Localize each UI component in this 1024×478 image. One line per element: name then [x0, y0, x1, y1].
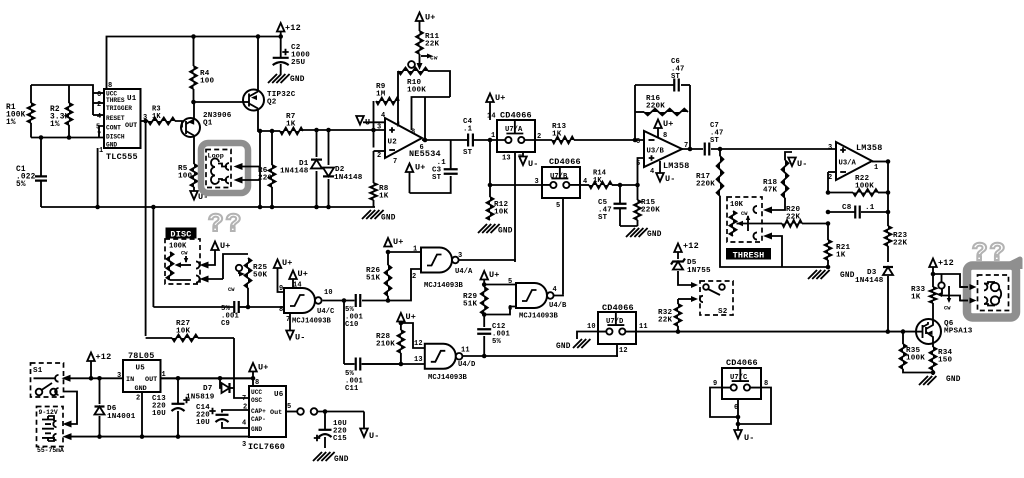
svg-text:ST: ST [671, 73, 681, 81]
power +12 arrow top [280, 28, 282, 57]
svg-text:U+: U+ [663, 119, 674, 129]
wire Q2 emitter [257, 37, 259, 92]
resistor R9 [376, 98, 399, 105]
resistor R32 [677, 299, 679, 304]
svg-text:GND: GND [251, 426, 262, 433]
wire output feedback vertical [887, 162, 889, 227]
switch S2 dashed box [700, 281, 733, 315]
wire V+ top rail [107, 37, 281, 90]
wire U3B feedback right [689, 85, 691, 149]
potentiometer DISC 100K dashed box [165, 239, 200, 284]
svg-text:1K: 1K [836, 252, 846, 260]
svg-text:CD4066: CD4066 [726, 358, 758, 368]
svg-text:3: 3 [117, 372, 121, 380]
svg-text:MCJ14093B: MCJ14093B [292, 318, 332, 326]
svg-text:S2: S2 [718, 308, 728, 316]
resistor R18 [782, 160, 789, 198]
svg-text:9: 9 [279, 285, 283, 293]
wire U7A pin13 control [514, 152, 516, 260]
svg-text:4: 4 [553, 286, 557, 294]
svg-text:22K: 22K [893, 240, 908, 248]
capacitor C12 [483, 315, 485, 357]
svg-text:3: 3 [458, 252, 462, 260]
wire U4A out to U7A pin13 [458, 260, 515, 262]
svg-text:U7/C: U7/C [730, 374, 748, 382]
power U+ at U4A pin1 [384, 238, 392, 247]
svg-text:D3: D3 [867, 269, 877, 277]
svg-text:LM358: LM358 [663, 161, 690, 171]
svg-text:100K: 100K [855, 183, 874, 191]
svg-text:13: 13 [502, 155, 511, 163]
diode D6 1N4001 [99, 378, 101, 404]
power U+ at U7A pin14 [486, 94, 494, 103]
svg-text:100: 100 [200, 78, 215, 86]
node C5 junction [618, 183, 623, 188]
svg-text:U5: U5 [136, 365, 146, 373]
ground below R15 [626, 228, 648, 237]
svg-text:C8: C8 [842, 204, 852, 212]
annotation gray speaker box [967, 266, 1016, 318]
svg-text:U1: U1 [127, 95, 137, 103]
svg-text:13: 13 [414, 356, 423, 364]
svg-text:8: 8 [279, 306, 283, 314]
wire U3B feedback left [634, 85, 636, 140]
svg-text:CW: CW [181, 251, 188, 257]
capacitor C9 [234, 301, 239, 313]
svg-text:50K: 50K [253, 272, 268, 280]
svg-text:22K: 22K [786, 214, 801, 222]
svg-text:GND: GND [334, 456, 349, 464]
wire R27 to U6 osc [234, 338, 249, 398]
wire +12 rail to S1 [68, 377, 253, 379]
svg-text:1N4148: 1N4148 [280, 168, 309, 176]
svg-text:55-75mA: 55-75mA [37, 447, 64, 454]
svg-text:U-: U- [797, 159, 808, 169]
svg-text:LM358: LM358 [856, 143, 883, 153]
wire U7C tie-off loops [710, 388, 738, 418]
op-amp U3/B LM358 [644, 131, 682, 167]
svg-text:1K: 1K [911, 294, 921, 302]
resistor R14 [612, 184, 620, 186]
wire C4 to U7A [473, 139, 497, 141]
potentiometer R33 1K [930, 287, 937, 303]
svg-text:10K: 10K [176, 328, 191, 336]
label DISC [166, 228, 197, 239]
diode D2 1N4148 [328, 130, 330, 165]
wire base row to Q2 [194, 101, 244, 103]
svg-text:Q1: Q1 [203, 120, 213, 128]
speaker connector symbol [984, 284, 987, 291]
svg-text:210K: 210K [376, 341, 395, 349]
resistor R26 [387, 252, 389, 265]
svg-text:22K: 22K [658, 317, 673, 325]
svg-text:1N4148: 1N4148 [855, 277, 884, 285]
wire to U7B [490, 184, 542, 186]
wire U4D pin13 row [362, 363, 425, 365]
svg-text:U4/D: U4/D [458, 361, 476, 369]
wire R10 right leg [428, 71, 450, 97]
potentiometer R10 100K [398, 68, 428, 75]
wire Q2 collector to R7 row [258, 109, 280, 132]
switch S1 dashed box [31, 363, 64, 397]
capacitor C4 [468, 134, 473, 147]
op-amp U3/A LM358 [836, 142, 872, 180]
svg-text:3: 3 [377, 124, 381, 132]
annotation gray loop box [201, 143, 248, 193]
wire R32 to S2 [678, 298, 691, 300]
node Q2 emitter junction [256, 34, 261, 39]
svg-text:U+: U+ [495, 93, 506, 103]
resistor R21 [827, 224, 829, 241]
svg-text:14: 14 [487, 113, 496, 121]
wire C10-C11 branch [343, 301, 345, 365]
resistor R6 [271, 131, 273, 165]
power U+ at R28 [397, 313, 405, 322]
transistor Q6 MPSA13 [916, 319, 941, 344]
ground below C2 [268, 74, 290, 83]
ground below R12 [478, 224, 500, 233]
svg-text:U7/D: U7/D [606, 318, 624, 326]
label THRESH [726, 248, 771, 260]
svg-text:TRIGGER: TRIGGER [106, 105, 132, 112]
svg-text:OUT: OUT [145, 376, 157, 384]
svg-text:??: ?? [972, 238, 1007, 268]
svg-text:U+: U+ [406, 312, 417, 322]
resistor R13 [552, 137, 574, 144]
resistor R16 [644, 109, 688, 116]
svg-text:1%: 1% [6, 119, 16, 127]
svg-text:12: 12 [414, 340, 423, 348]
wire battery minus rail [70, 436, 249, 438]
svg-text:2: 2 [377, 152, 381, 160]
svg-text:1M: 1M [376, 91, 386, 99]
svg-text:100K: 100K [169, 243, 187, 251]
svg-text:7: 7 [393, 158, 397, 166]
wire S1 to battery [64, 392, 77, 425]
wire input branch down [489, 140, 491, 185]
svg-text:U2: U2 [388, 139, 398, 147]
svg-text:U4/C: U4/C [317, 308, 335, 316]
svg-text:10U: 10U [152, 410, 166, 418]
svg-text:5%: 5% [492, 338, 502, 346]
power U+ above R11 [419, 21, 421, 31]
resistor R4 [193, 37, 195, 67]
wire U7D pin11 rail [636, 331, 916, 333]
svg-text:11: 11 [639, 323, 648, 331]
svg-text:10: 10 [324, 289, 333, 297]
resistor R27 [146, 337, 172, 339]
svg-text:2: 2 [412, 273, 416, 281]
svg-text:U+: U+ [282, 258, 293, 268]
svg-text:5: 5 [287, 403, 291, 411]
svg-text:CW: CW [944, 306, 951, 312]
wire U1 out node [141, 120, 149, 122]
svg-text:GND: GND [556, 343, 571, 351]
svg-text:5: 5 [556, 202, 560, 210]
wire R35 to gnd node [903, 369, 933, 373]
nand gate U4/B MCJ14093B [516, 283, 547, 308]
wire 555 out to timing [145, 121, 147, 336]
svg-text:2: 2 [136, 395, 140, 403]
power U+ at U4C pin9 [274, 260, 282, 269]
wire U4C output [323, 300, 355, 302]
disc pot element [167, 252, 174, 280]
svg-text:220K: 220K [641, 207, 660, 215]
resistor R29 [481, 287, 488, 315]
svg-text:NE5534: NE5534 [409, 149, 441, 159]
wire R17 down to thresh pot [720, 196, 782, 267]
svg-text:CAP-: CAP- [251, 416, 266, 423]
power +12 above D5 [674, 244, 682, 253]
loop coil symbol [211, 158, 219, 183]
capacitor C11 [344, 363, 355, 365]
resistor R20 [802, 223, 828, 225]
resistor R1 [30, 85, 32, 103]
svg-text:4: 4 [381, 112, 385, 120]
svg-text:150: 150 [938, 357, 953, 365]
svg-text:220K: 220K [696, 181, 715, 189]
svg-text:ST: ST [463, 149, 473, 157]
svg-text:ST: ST [432, 174, 442, 182]
svg-text:IN: IN [126, 376, 134, 384]
resistor R23 [885, 226, 892, 246]
svg-text:U-: U- [528, 159, 539, 169]
svg-text:100: 100 [178, 173, 193, 181]
wire U4A pin2 riser [388, 269, 421, 301]
svg-text:ST: ST [598, 214, 608, 222]
wire U4B out to U7B pin5 [554, 294, 563, 297]
svg-text:1: 1 [874, 164, 878, 172]
svg-text:D7: D7 [203, 385, 213, 393]
svg-text:cw: cw [430, 55, 438, 62]
svg-text:1K: 1K [152, 113, 161, 121]
svg-text:Out: Out [270, 409, 282, 417]
svg-text:22K: 22K [425, 41, 440, 49]
svg-text:5%: 5% [16, 181, 26, 189]
svg-text:3: 3 [828, 144, 832, 152]
power +12 arrow at supply [90, 361, 92, 378]
capacitor C15 [324, 412, 326, 430]
wire R25 to disc bottom [205, 278, 223, 280]
resistor R5 [191, 164, 198, 187]
svg-text:1K: 1K [593, 177, 602, 185]
svg-text:??: ?? [208, 209, 243, 239]
wire U5 out rail [161, 377, 254, 379]
wire Q6 collector [932, 303, 934, 320]
ground below R8 [362, 210, 384, 219]
svg-text:10K: 10K [730, 201, 744, 209]
wire U5 pin2 to rail [141, 392, 143, 437]
svg-text:CAP+: CAP+ [251, 408, 266, 415]
wire U2 output [422, 139, 467, 141]
wire R25 bottom [247, 288, 249, 307]
wire R7 to U2 [303, 129, 385, 131]
svg-text:MCJ14093B: MCJ14093B [428, 374, 468, 382]
capacitor C10 [356, 294, 361, 307]
svg-text:CW: CW [228, 287, 235, 293]
svg-text:GND: GND [106, 142, 117, 149]
power U- at C15 [363, 412, 365, 429]
transistor Q1 collector wire [193, 136, 195, 165]
svg-text:U+: U+ [258, 363, 269, 373]
svg-text:U+: U+ [298, 269, 309, 279]
svg-text:6: 6 [420, 144, 424, 152]
svg-text:51K: 51K [463, 301, 478, 309]
wire U4A pin1 row [388, 251, 421, 253]
wire pot wiper to R20 [743, 223, 782, 225]
capacitor C5 [619, 185, 621, 203]
svg-text:+12: +12 [683, 241, 699, 251]
svg-text:11: 11 [461, 347, 470, 355]
wire U4D output row [462, 355, 618, 357]
power U- at U2 pin4 [356, 116, 364, 125]
wire R9 left vertical [373, 101, 375, 148]
svg-text:THRES: THRES [106, 97, 125, 104]
svg-text:GND: GND [647, 231, 662, 239]
power U- at U3B pin4 [659, 161, 661, 173]
power U- below R5 [193, 187, 195, 192]
op-amp U2 NE5534 [385, 118, 422, 158]
svg-text:U+: U+ [489, 270, 500, 280]
svg-text:220K: 220K [646, 103, 665, 111]
svg-text:10: 10 [587, 323, 596, 331]
svg-text:47K: 47K [763, 187, 778, 195]
capacitor C6 [674, 79, 679, 92]
svg-text:1N4148: 1N4148 [334, 174, 363, 182]
svg-text:8: 8 [663, 132, 667, 140]
svg-text:U-: U- [295, 333, 306, 343]
nand gate U4/A MCJ14093B [421, 248, 452, 273]
wire U7B pin5 control [562, 198, 564, 295]
wire U3B output [682, 148, 703, 150]
svg-text:GND: GND [381, 215, 396, 223]
wire discharge row [31, 137, 104, 139]
svg-text:THRESH: THRESH [733, 251, 765, 261]
svg-text:12: 12 [619, 347, 628, 355]
svg-text:C15: C15 [333, 435, 347, 443]
capacitor C14 [222, 410, 249, 413]
svg-text:GND: GND [946, 376, 961, 384]
svg-text:10U: 10U [196, 419, 210, 427]
svg-text:1K: 1K [552, 131, 562, 139]
wire U7D pin12 [617, 344, 618, 356]
svg-text:51K: 51K [366, 275, 381, 283]
svg-text:TLC555: TLC555 [106, 152, 138, 162]
svg-text:100K: 100K [407, 87, 426, 95]
svg-text:1: 1 [491, 132, 495, 140]
svg-text:U+: U+ [220, 241, 231, 251]
diode D7 1N5819 [220, 378, 221, 388]
wire R10 left leg [397, 71, 399, 125]
wire U3A output [872, 161, 888, 163]
battery dashed box [37, 407, 64, 447]
node R6 top [270, 129, 275, 134]
resistor R12 [489, 185, 491, 197]
wire U1 pin5 pin7 [99, 126, 104, 138]
capacitor C7 [705, 143, 710, 156]
speaker dashed box [978, 275, 1009, 311]
wire R28 to U4D pin12 [401, 323, 425, 348]
resistor R8 [373, 151, 375, 183]
svg-text:25U: 25U [291, 59, 306, 67]
resistor R34 [932, 344, 934, 347]
wire C12 top to U4B pin6 [484, 307, 516, 315]
svg-text:1N4001: 1N4001 [107, 413, 136, 421]
svg-text:GND: GND [840, 272, 855, 280]
resistor R3 [148, 118, 175, 125]
svg-text:10K: 10K [494, 209, 509, 217]
wire U1 pin1 to rail [97, 148, 99, 207]
svg-text:8: 8 [108, 82, 112, 90]
power U+ at U4C pin14 [289, 271, 297, 280]
IC U1 TLC555 [104, 89, 141, 148]
capacitor C13 [177, 378, 179, 403]
svg-text:DISC: DISC [170, 230, 191, 240]
wire U7D pin10 to gnd [577, 332, 598, 340]
svg-text:Q2: Q2 [267, 99, 277, 107]
power U- above R18 [785, 152, 792, 160]
svg-text:CONT: CONT [106, 125, 121, 132]
transistor Q2 TIP32C [243, 90, 264, 111]
transistor Q1 2N3906 [181, 118, 200, 137]
svg-text:ST: ST [710, 137, 720, 145]
ground below C15 [313, 452, 335, 461]
svg-text:S1: S1 [33, 367, 43, 375]
svg-text:100K: 100K [906, 355, 925, 363]
svg-text:MCJ14093B: MCJ14093B [424, 282, 464, 290]
svg-text:1%: 1% [50, 121, 60, 129]
svg-text:U7/B: U7/B [550, 173, 568, 181]
svg-text:9-12V: 9-12V [39, 409, 58, 416]
svg-text:4: 4 [650, 168, 654, 176]
svg-text:1N5819: 1N5819 [186, 394, 215, 402]
resistor R28 [400, 353, 402, 364]
svg-text:U4/B: U4/B [549, 302, 567, 310]
nand gate U4/D MCJ14093B [425, 344, 456, 369]
thresh pot element [730, 211, 737, 236]
svg-text:OSC: OSC [251, 397, 262, 404]
power U+ to disc wiper [211, 242, 219, 251]
potentiometer 10K THRESH dashed box [727, 197, 762, 242]
wire loop terminal arrows [240, 166, 260, 168]
svg-text:3: 3 [535, 178, 539, 186]
wire U3A pin2 stub [828, 171, 836, 173]
wire +12 to speaker [933, 274, 965, 287]
ground at Q6 [932, 373, 934, 376]
wire loop drive vertical [259, 131, 261, 207]
wire Q1 emitter up [193, 102, 195, 120]
potentiometer R25 50K [245, 258, 252, 288]
svg-text:UCC: UCC [251, 389, 262, 396]
svg-text:U3/A: U3/A [839, 160, 857, 168]
resistor R17 [719, 149, 721, 156]
svg-text:.1: .1 [865, 204, 875, 212]
svg-text:C9: C9 [221, 320, 230, 328]
svg-text:.1: .1 [463, 126, 473, 134]
svg-text:D5: D5 [687, 259, 697, 267]
svg-text:GND: GND [498, 228, 513, 236]
wire to U3B plus input [620, 158, 644, 185]
wire gnd row to R21 [782, 266, 828, 268]
svg-text:OUT: OUT [125, 122, 137, 130]
power U+ at U6 pin8 [252, 372, 254, 387]
svg-text:U3/B: U3/B [647, 148, 665, 156]
resistor R35 [902, 332, 904, 344]
resistor R15 [637, 185, 639, 200]
svg-text:U+: U+ [393, 237, 404, 247]
svg-text:1K: 1K [286, 121, 296, 129]
zener D5 1N755 [677, 252, 679, 259]
